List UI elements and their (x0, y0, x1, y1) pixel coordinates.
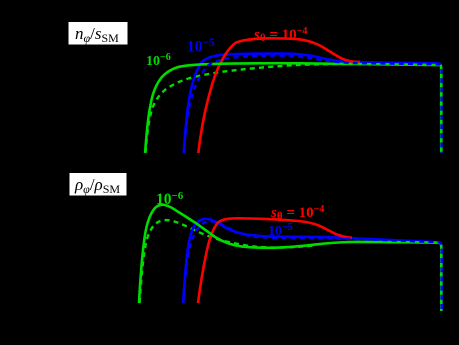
bottom panel: blue solid curve (183, 219, 441, 311)
top panel: blue solid curve (s_theta=1e-5) (184, 54, 441, 153)
bottom panel label box rho_phi / rho_SM (69, 173, 127, 197)
top panel: green solid curve (s_theta=1e-6) (145, 63, 441, 153)
top panel label box n_phi / s_SM (68, 22, 128, 46)
top panel: blue dashed curve (s_theta=1e-5, dashed IC) (184, 56, 442, 153)
top panel: red solid curve (s_theta=1e-4) (198, 38, 360, 153)
bottom panel: green dashed curve (140, 220, 316, 303)
top panel: green dashed curve (s_theta=1e-6, dashed IC) (146, 64, 353, 153)
bottom panel: red solid curve (198, 218, 352, 303)
bottom panel: green solid curve (139, 205, 441, 311)
bottom panel: blue dashed curve (183, 221, 441, 311)
